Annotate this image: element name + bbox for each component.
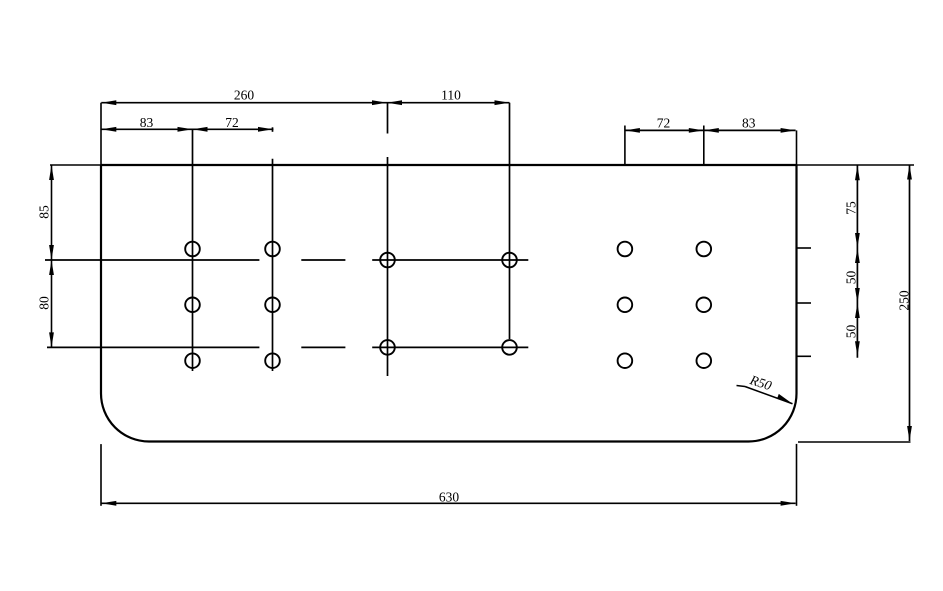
arrowhead 260 left bbox=[101, 100, 116, 105]
right group hole at (625,305) bbox=[618, 298, 633, 313]
right edge tick y=356 bbox=[797, 355, 812, 357]
right edge tick y=303 bbox=[797, 302, 812, 304]
svg-text:72: 72 bbox=[225, 115, 239, 130]
middle group hole at (510,347) bbox=[502, 340, 517, 355]
arrowhead 72 right row2 bbox=[258, 127, 273, 132]
plate right edge bbox=[795, 165, 797, 394]
right group hole at (704,361) bbox=[697, 353, 712, 368]
arrowhead 50b bottom bbox=[855, 341, 860, 356]
arrowhead 83 left right-row bbox=[704, 128, 719, 133]
label 110 bbox=[441, 88, 461, 103]
column centerline x=387.5 lower segment bbox=[387, 157, 389, 376]
dimension line 75/50/50 vertical x=857.4 bbox=[856, 165, 858, 357]
left group hole at (192,361) bbox=[185, 353, 200, 368]
arrowhead 110 left bbox=[387, 100, 402, 105]
extension line x=703.8 bbox=[703, 126, 705, 166]
arrowhead 83 left row2 bbox=[101, 127, 116, 132]
left group hole at (272,361) bbox=[265, 353, 280, 368]
label 50 lower bbox=[844, 325, 859, 339]
dimension line 260/110 row y=102.7 bbox=[101, 102, 509, 104]
svg-text:260: 260 bbox=[234, 88, 255, 103]
arrowhead 85 top bbox=[49, 165, 54, 180]
label 80 bbox=[37, 296, 52, 310]
arrowhead 630 left bbox=[101, 501, 116, 506]
bottom-left corner arc R50 bbox=[101, 394, 149, 442]
horizontal centerline y=347 segment 1 bbox=[47, 346, 259, 348]
extension line x=796.5 below plate for 630 bbox=[796, 444, 798, 506]
horizontal centerline y=347 segment 3 through middle holes bbox=[372, 346, 528, 348]
bottom-right corner arc R50 bbox=[749, 394, 797, 442]
dimension line 83/72 left row y=129.3 bbox=[101, 128, 273, 130]
dimension line 630 y=503.3 bbox=[101, 502, 795, 504]
svg-text:110: 110 bbox=[441, 88, 461, 103]
horizontal centerline y=260 segment 3 through middle holes bbox=[372, 259, 528, 261]
label 83 left bbox=[140, 115, 154, 130]
plate left edge bbox=[100, 165, 102, 394]
arrowhead 50a top bbox=[855, 248, 860, 263]
svg-text:50: 50 bbox=[844, 325, 859, 339]
svg-text:250: 250 bbox=[897, 290, 912, 311]
extension line x=101 from dimension rows to plate bbox=[100, 103, 102, 165]
leader arrowhead R50 bbox=[777, 394, 792, 404]
label 50 upper bbox=[844, 271, 859, 285]
label 72 left bbox=[225, 115, 239, 130]
middle group hole at (388,347) bbox=[380, 340, 395, 355]
plate top edge bbox=[101, 164, 797, 166]
label 250 bbox=[897, 290, 912, 311]
arrowhead 85 bottom bbox=[49, 245, 54, 260]
right edge tick y=248 bbox=[797, 247, 812, 249]
svg-text:R50: R50 bbox=[747, 372, 774, 393]
label 83 right bbox=[742, 115, 756, 130]
label 72 right bbox=[657, 115, 671, 130]
left group hole at (272,249) bbox=[265, 242, 280, 257]
svg-text:85: 85 bbox=[37, 205, 52, 219]
svg-text:630: 630 bbox=[439, 489, 460, 504]
label 260 bbox=[234, 88, 255, 103]
arrowhead 72 left row2 bbox=[193, 127, 208, 132]
arrowhead 75 bottom bbox=[855, 233, 860, 248]
svg-text:83: 83 bbox=[742, 115, 756, 130]
svg-text:50: 50 bbox=[844, 271, 859, 285]
arrowhead 50b top bbox=[855, 303, 860, 318]
right group hole at (704,305) bbox=[697, 298, 712, 313]
leader line R50 bbox=[737, 386, 793, 404]
extension line x=625 bbox=[624, 126, 626, 166]
column centerline x=387.5 upper segment bbox=[387, 103, 389, 134]
column centerline x=192.5 bbox=[192, 129, 194, 371]
svg-text:80: 80 bbox=[37, 296, 52, 310]
horizontal centerline y=260 dash segment 2 bbox=[301, 259, 345, 261]
arrowhead 72 left right-row bbox=[625, 128, 640, 133]
label 85 bbox=[37, 205, 52, 219]
arrowhead 250 bottom bbox=[907, 426, 912, 441]
arrowhead 83 right row2 bbox=[178, 127, 193, 132]
left group hole at (192,305) bbox=[185, 298, 200, 313]
extension line x=101 below plate for 630 bbox=[100, 444, 102, 506]
left group hole at (272,305) bbox=[265, 298, 280, 313]
horizontal centerline y=260 segment 1 bbox=[45, 259, 259, 261]
svg-text:75: 75 bbox=[844, 201, 859, 215]
column centerline x=509.5 bbox=[509, 103, 511, 339]
left group hole at (192,249) bbox=[185, 242, 200, 257]
arrowhead 630 right bbox=[781, 501, 796, 506]
right group hole at (704,249) bbox=[697, 242, 712, 257]
bottom edge extension line right bbox=[798, 441, 911, 443]
svg-text:83: 83 bbox=[140, 115, 154, 130]
top edge extension line left bbox=[50, 164, 101, 166]
label 630 bbox=[439, 489, 460, 504]
svg-text:72: 72 bbox=[657, 115, 671, 130]
arrowhead 83 right right-row bbox=[781, 128, 796, 133]
column centerline x=272.5 bbox=[272, 159, 274, 371]
middle group hole at (510,260) bbox=[502, 253, 517, 268]
arrowhead 75 top bbox=[855, 165, 860, 180]
dimension line 250 vertical x=909.5 bbox=[909, 165, 911, 442]
arrowhead 250 top bbox=[907, 165, 912, 180]
plate bottom edge bbox=[149, 440, 749, 442]
arrowhead 260 right bbox=[372, 100, 387, 105]
label 75 bbox=[844, 201, 859, 215]
extension line x=796.5 above plate bbox=[796, 130, 798, 165]
dimension line 85/80 vertical x=51.5 bbox=[51, 165, 53, 347]
arrowhead 80 bottom bbox=[49, 332, 54, 347]
column centerline x=272.5 top tick bbox=[272, 127, 274, 132]
dimension line 72/83 right row y=130.4 bbox=[625, 129, 796, 131]
arrowhead 80 top bbox=[49, 260, 54, 275]
top edge extension line right bbox=[797, 164, 915, 166]
right group hole at (625,249) bbox=[618, 242, 633, 257]
right group hole at (625,361) bbox=[618, 353, 633, 368]
arrowhead 50a bottom bbox=[855, 288, 860, 303]
label R50 bbox=[747, 372, 774, 393]
horizontal centerline y=347 dash segment 2 bbox=[301, 346, 345, 348]
middle group hole at (388,260) bbox=[380, 253, 395, 268]
arrowhead 72 right right-row bbox=[689, 128, 704, 133]
arrowhead 110 right bbox=[495, 100, 510, 105]
